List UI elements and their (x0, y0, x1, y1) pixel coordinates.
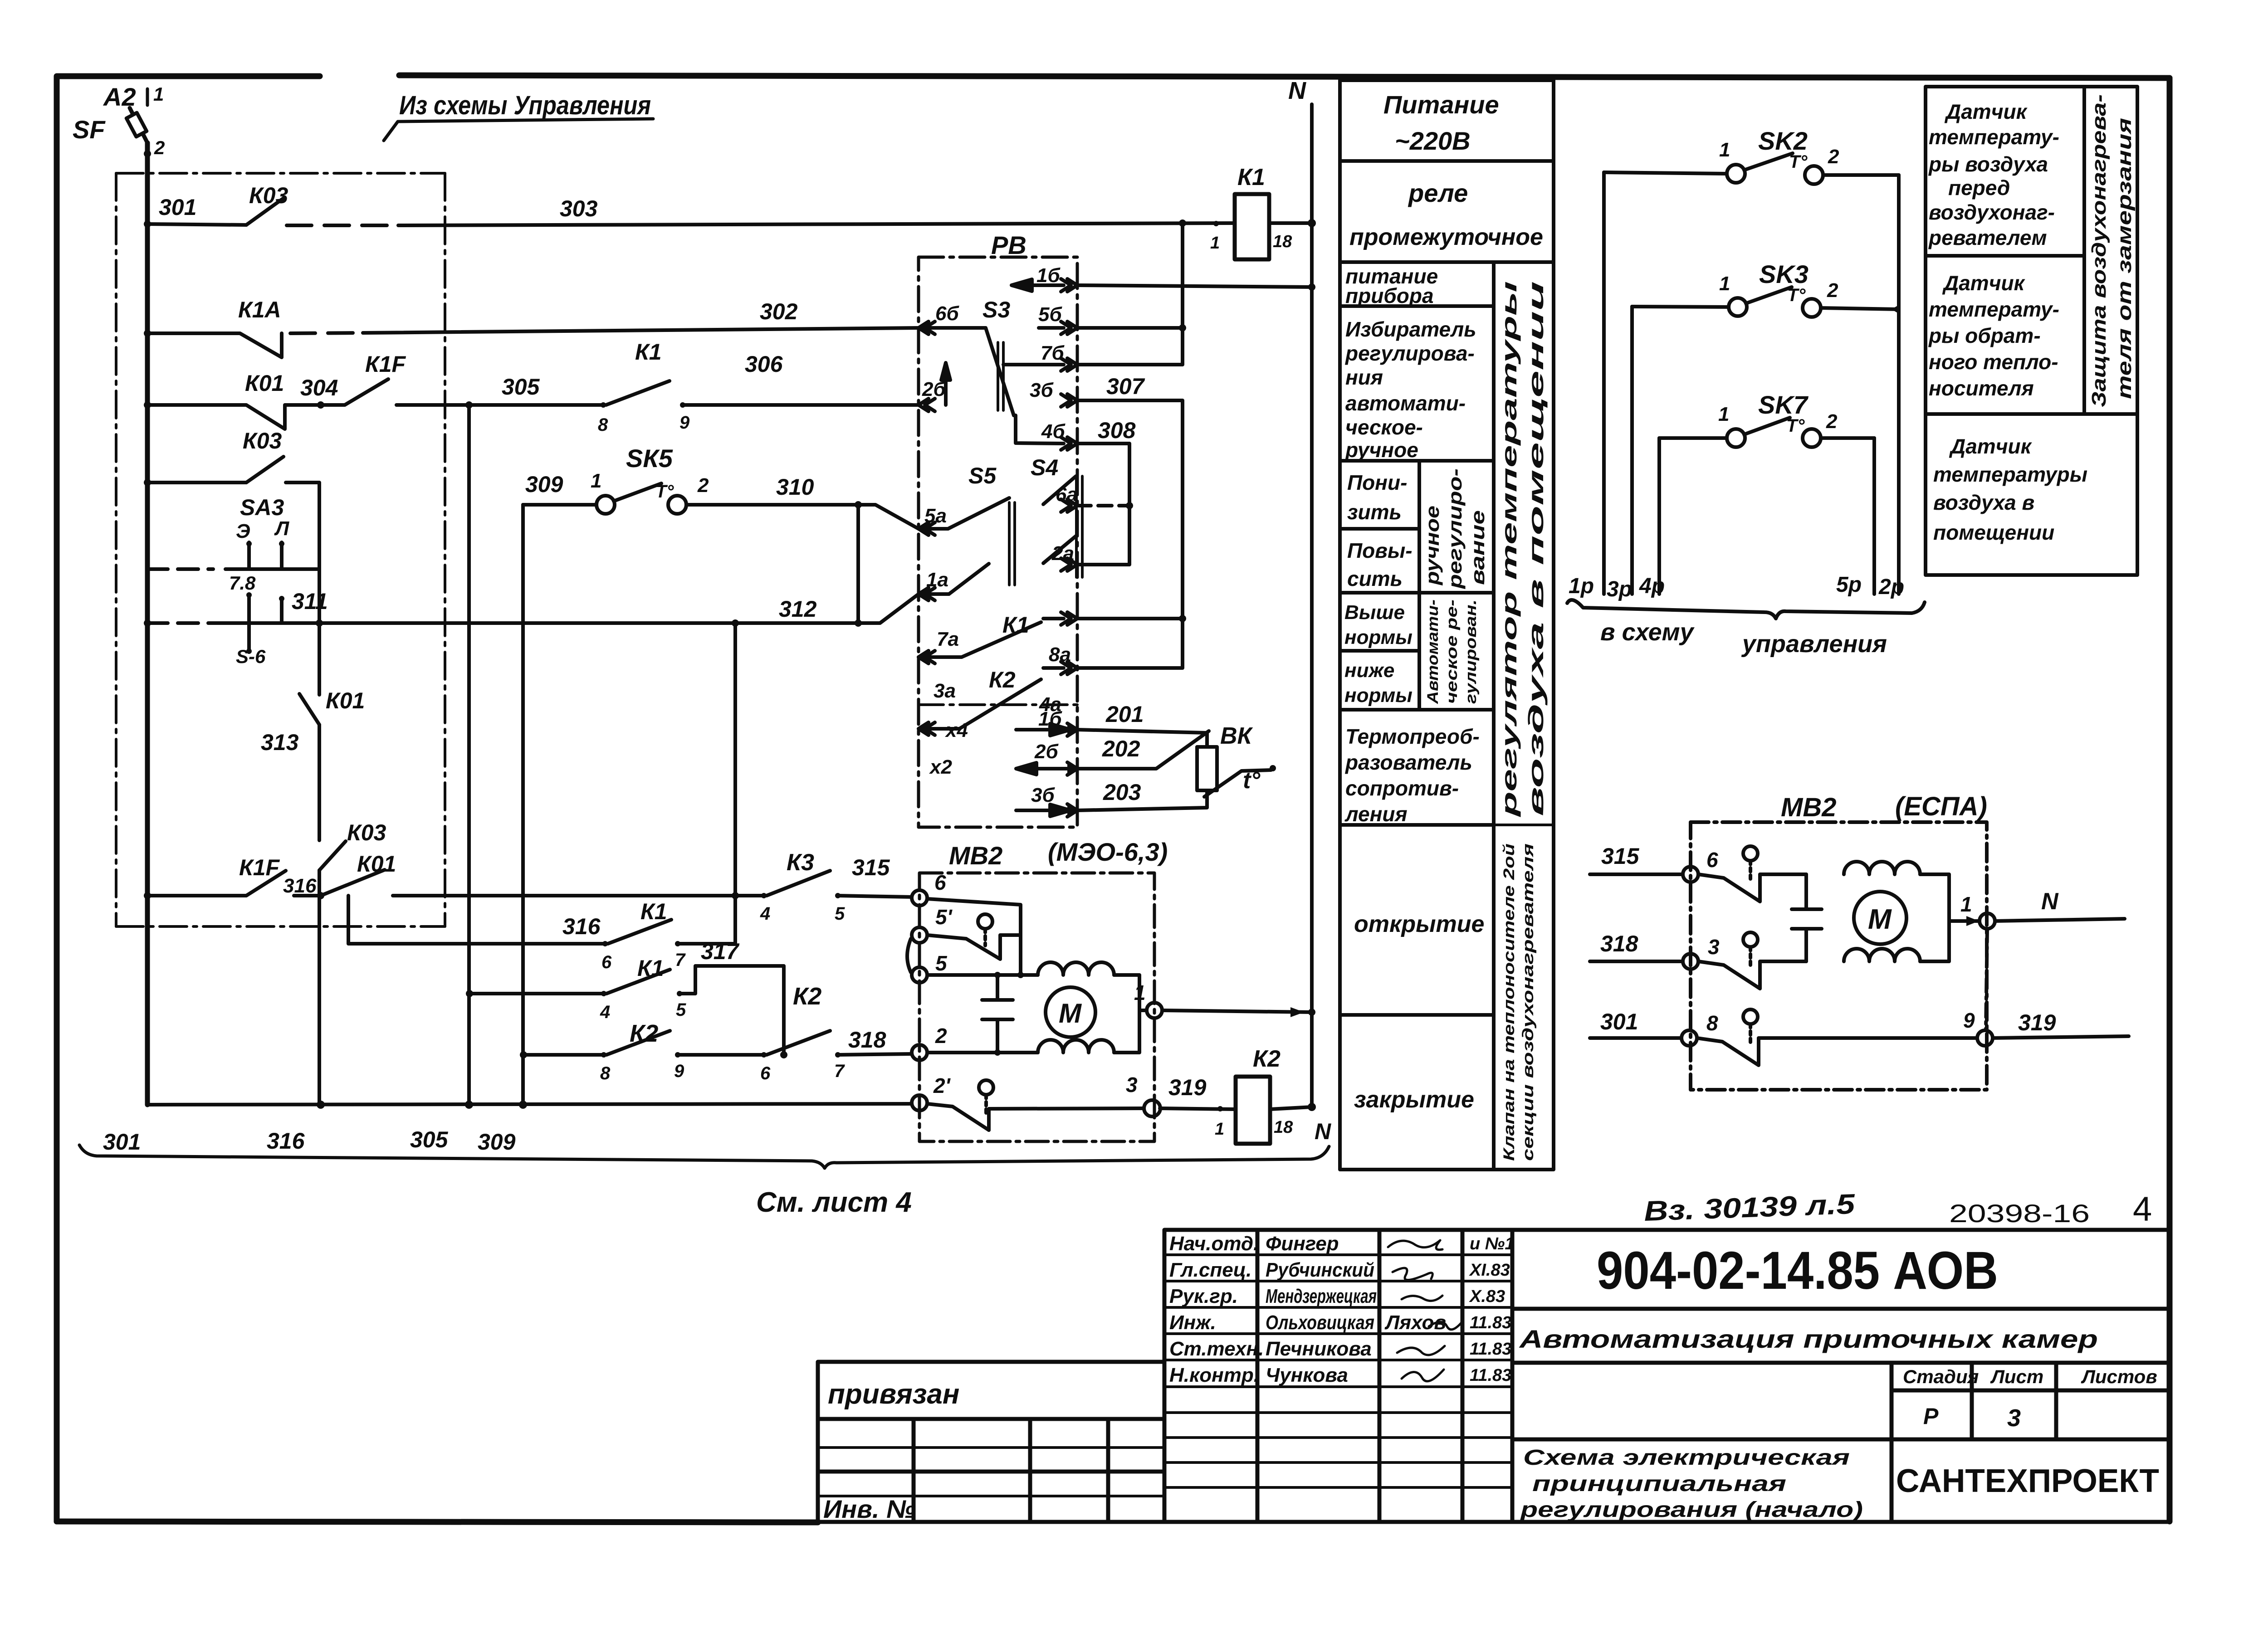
svg-text:SK7: SK7 (1758, 390, 1809, 419)
svg-text:САНТЕХПРОЕКТ: САНТЕХПРОЕКТ (1896, 1463, 2159, 1499)
svg-text:306: 306 (745, 351, 783, 377)
svg-text:воздухонаг-: воздухонаг- (1929, 200, 2055, 224)
terminal 9 (1977, 1030, 1993, 1046)
svg-text:Рук.гр.: Рук.гр. (1169, 1285, 1238, 1307)
svg-text:Датчик: Датчик (1942, 271, 2026, 295)
svg-text:перед: перед (1948, 176, 2010, 200)
right sensor description boxes (1926, 87, 2137, 575)
svg-text:S-6: S-6 (236, 646, 266, 667)
motor winding top (1038, 962, 1114, 975)
right chevron 2a (1061, 558, 1077, 571)
junction row D (144, 479, 151, 486)
svg-text:1: 1 (1719, 273, 1730, 295)
svg-text:Т°: Т° (655, 482, 674, 502)
svg-text:20398-16: 20398-16 (1949, 1199, 2090, 1228)
svg-text:4: 4 (600, 1002, 610, 1022)
svg-text:ручное: ручное (1422, 506, 1443, 585)
svg-text:5': 5' (935, 905, 953, 929)
svg-text:ры воздуха: ры воздуха (1928, 152, 2048, 176)
svg-text:К03: К03 (243, 428, 282, 453)
svg-text:автомати-: автомати- (1345, 391, 1466, 415)
svg-text:Т°: Т° (1786, 416, 1805, 436)
svg-text:А2: А2 (103, 83, 136, 111)
thermal switch SK2 (1604, 153, 1899, 184)
contact K03 row A (246, 198, 283, 225)
svg-text:301: 301 (1600, 1009, 1638, 1034)
svg-text:N: N (2041, 888, 2059, 915)
junction 310-312 (855, 619, 862, 627)
thermal switch SK3 (1632, 287, 1899, 317)
svg-text:нормы: нормы (1344, 684, 1413, 707)
svg-text:XI.83: XI.83 (1469, 1261, 1510, 1280)
svg-text:помещении: помещении (1933, 521, 2054, 544)
svg-text:воздуха в: воздуха в (1933, 491, 2034, 514)
contact K01 row H (321, 870, 735, 896)
svg-text:секции воздухонагревателя: секции воздухонагревателя (1520, 843, 1537, 1161)
svg-text:К1: К1 (637, 955, 664, 981)
svg-text:К01: К01 (245, 370, 284, 396)
wire K1 to N (1269, 221, 1312, 225)
svg-text:SА3: SА3 (240, 495, 284, 520)
right chevron 4a (1061, 662, 1077, 674)
svg-text:М: М (1868, 904, 1892, 935)
right chevron 7b (1061, 358, 1077, 371)
junction arrow at motor out (1966, 916, 1979, 926)
node 304 (317, 401, 324, 409)
МВ2 (ЕСПА) enclosure dash-dot (1691, 822, 1987, 1090)
N bus (1310, 104, 1314, 1109)
svg-text:SF: SF (73, 115, 106, 144)
wire 302 dashed (290, 333, 363, 333)
svg-text:4: 4 (2133, 1190, 2152, 1228)
svg-text:8а: 8а (1049, 643, 1071, 666)
svg-text:нормы: нормы (1344, 626, 1413, 648)
wire 1 to N (1162, 1010, 1312, 1012)
svg-text:1: 1 (591, 470, 601, 492)
svg-text:К2: К2 (989, 667, 1016, 692)
svg-text:х4: х4 (945, 719, 968, 741)
svg-text:К1: К1 (640, 899, 667, 924)
svg-text:принципиальная: принципиальная (1532, 1472, 1786, 1496)
svg-text:SК5: SК5 (626, 444, 673, 473)
svg-text:Печникова: Печникова (1266, 1338, 1372, 1360)
svg-text:сить: сить (1347, 567, 1403, 590)
wire 303 dashed section (287, 224, 398, 227)
svg-text:регулирования (начало): регулирования (начало) (1519, 1498, 1863, 1522)
motor M MEO (1046, 987, 1095, 1037)
svg-text:привязан: привязан (828, 1379, 959, 1410)
junction row H 312 (732, 892, 739, 899)
svg-text:312: 312 (779, 596, 817, 622)
PB regulator block (919, 219, 1315, 827)
thermal switch SK7 (1659, 418, 1874, 447)
svg-text:7.8: 7.8 (229, 572, 256, 594)
svg-text:К1F: К1F (365, 351, 406, 377)
svg-text:8: 8 (1706, 1011, 1718, 1035)
wire 312 drop (733, 623, 737, 944)
svg-text:309: 309 (478, 1129, 516, 1155)
svg-text:5: 5 (835, 904, 845, 924)
right chevron 3b (1061, 394, 1077, 407)
MEO dash-dot enclosure (919, 873, 1154, 1141)
svg-text:2: 2 (154, 137, 165, 158)
svg-text:6б: 6б (935, 302, 959, 325)
panel boundary dash-dot rectangle (116, 173, 445, 926)
wire 301 row A (147, 224, 246, 225)
wire 319 to K2 (1160, 1108, 1236, 1109)
svg-text:6: 6 (760, 1063, 771, 1083)
PB labels (922, 231, 1261, 806)
junction 5b-303 (1179, 219, 1186, 227)
title block (818, 1230, 2170, 1522)
wire row 317 (469, 992, 604, 995)
wire 309 row G (523, 503, 596, 507)
contact K1 8-9 row C (606, 381, 919, 405)
svg-text:Н.контр.: Н.контр. (1169, 1364, 1259, 1386)
junction 6a-308 (1126, 502, 1133, 509)
pin dot 1 K2 (1217, 1106, 1223, 1111)
motor frame (1920, 874, 1949, 961)
svg-text:сопротив-: сопротив- (1345, 776, 1459, 800)
svg-text:11.83: 11.83 (1470, 1340, 1511, 1359)
svg-text:температуры: температуры (1933, 463, 2087, 486)
contact S1 from 6 (927, 899, 1021, 975)
junction SF (144, 150, 151, 157)
terminal 3 (1683, 954, 1698, 969)
svg-text:305: 305 (502, 374, 540, 400)
svg-text:ления: ления (1344, 802, 1408, 826)
main phase bus (145, 143, 150, 1105)
svg-text:2: 2 (935, 1024, 947, 1048)
wire 310 to PB 5a (858, 505, 919, 529)
contact after terminal 6 (1698, 846, 1806, 902)
svg-text:ния: ния (1345, 366, 1383, 389)
svg-text:Гл.спец.: Гл.спец. (1169, 1259, 1251, 1281)
svg-text:308: 308 (1098, 418, 1136, 443)
svg-text:2: 2 (1826, 410, 1838, 433)
node row H 316 (317, 892, 324, 899)
motor windings bottom (1844, 949, 1920, 961)
wire K2 to N (1270, 1107, 1312, 1109)
terminal 6 (912, 890, 927, 906)
link 1 to 9 dash-dot (1986, 929, 1987, 1030)
MEO actuator block (907, 873, 1315, 1141)
svg-text:203: 203 (1103, 780, 1141, 805)
terminal 5' (912, 927, 927, 943)
svg-text:К2: К2 (793, 983, 821, 1010)
svg-text:310: 310 (776, 474, 814, 500)
relay K1 coil (1235, 194, 1269, 259)
wire 1p vertical (1602, 172, 1606, 594)
svg-text:Избиратель: Избиратель (1345, 317, 1476, 341)
svg-text:(МЭО-6,3): (МЭО-6,3) (1048, 838, 1168, 866)
contact after terminal 3 (1698, 932, 1806, 989)
svg-text:6: 6 (1706, 848, 1718, 872)
selector S5 (919, 498, 1015, 594)
svg-text:ниже: ниже (1344, 659, 1394, 682)
underline see sheet 4 (79, 1145, 1329, 1168)
svg-text:8: 8 (598, 415, 608, 435)
svg-text:311: 311 (292, 589, 328, 614)
svg-text:К2: К2 (1253, 1046, 1281, 1072)
svg-text:М: М (1059, 998, 1082, 1029)
wire 316b drop (348, 896, 603, 944)
right chevron 6a (1061, 499, 1077, 512)
capacitor MEO (982, 975, 1013, 1053)
terminal row 3b-203 (1016, 804, 1077, 817)
svg-text:S5: S5 (968, 463, 997, 488)
svg-text:2: 2 (1828, 146, 1839, 168)
contact after terminal 8 (1697, 1009, 1976, 1065)
node 301 row A junction (144, 220, 151, 228)
junction row 317 (466, 990, 473, 997)
title block personnel table (1164, 1230, 1512, 1522)
wire 311 row F dashes (147, 621, 213, 625)
svg-text:3а: 3а (934, 680, 956, 702)
svg-text:Р: Р (1923, 1404, 1939, 1429)
svg-text:Клапан на теплоносителе 2ой: Клапан на теплоносителе 2ой (1501, 843, 1518, 1161)
wire 313 vertical (318, 569, 321, 1105)
title block texts (823, 1189, 2159, 1523)
svg-text:305: 305 (410, 1127, 449, 1152)
capacitor (1792, 874, 1822, 961)
svg-text:11.83: 11.83 (1470, 1313, 1511, 1332)
x4/x2 divider (919, 703, 1077, 706)
svg-text:вание: вание (1467, 510, 1488, 585)
jumper 5'-5 (907, 939, 911, 972)
svg-text:~220В: ~220В (1395, 127, 1471, 155)
svg-text:5: 5 (935, 951, 948, 975)
svg-text:Э: Э (236, 520, 250, 542)
contact K3 row H (735, 871, 912, 897)
svg-text:прибора: прибора (1345, 284, 1434, 307)
svg-text:1: 1 (153, 83, 164, 105)
svg-text:Фингер: Фингер (1266, 1233, 1339, 1255)
svg-text:Пони-: Пони- (1347, 471, 1407, 494)
motor M (1854, 892, 1906, 944)
contact from 2' (927, 1080, 1152, 1130)
junction 317-318 (780, 1051, 787, 1058)
svg-text:t°: t° (1243, 767, 1261, 794)
junction 5b (1179, 324, 1186, 331)
contact K01 row C (147, 405, 321, 429)
svg-text:1б: 1б (1038, 708, 1062, 730)
wire 201 to BK (1077, 730, 1207, 747)
svg-text:319: 319 (1168, 1075, 1207, 1100)
svg-text:воздуха в помещении: воздуха в помещении (1524, 281, 1548, 816)
relay K2 coil (1236, 1077, 1270, 1144)
svg-text:4б: 4б (1041, 420, 1066, 443)
wire 319 (1993, 1036, 2129, 1038)
motor winding bottom (1038, 1040, 1114, 1053)
svg-text:316: 316 (562, 914, 601, 939)
breaker SF with fuse (127, 89, 147, 143)
contact K2 3a-4a (919, 668, 1064, 729)
left chevron 5a (919, 522, 935, 535)
left schematic labels (73, 83, 912, 1218)
svg-text:Датчик: Датчик (1944, 100, 2028, 123)
left chevron 1a (919, 588, 935, 600)
junction row 318 (520, 1051, 527, 1058)
svg-text:Стадия: Стадия (1903, 1366, 1979, 1387)
svg-text:РВ: РВ (991, 231, 1026, 259)
svg-text:Т°: Т° (1789, 152, 1808, 172)
svg-text:Т°: Т° (1787, 285, 1806, 305)
svg-text:9: 9 (679, 413, 690, 433)
junction arrow motor N (1290, 1007, 1304, 1017)
svg-text:5а: 5а (924, 505, 947, 527)
svg-text:регулиро-: регулиро- (1444, 468, 1466, 589)
wire row 318 (523, 1053, 604, 1057)
svg-text:313: 313 (261, 730, 299, 755)
node row F to 313 vertical (316, 619, 323, 627)
t marker (1204, 770, 1271, 797)
svg-text:ческое-: ческое- (1345, 415, 1423, 439)
svg-text:Ст.техн.: Ст.техн. (1169, 1338, 1264, 1360)
junction 1b-N (1308, 283, 1315, 291)
svg-text:2р: 2р (1878, 575, 1904, 599)
svg-text:2: 2 (1827, 279, 1838, 302)
resistor BK (1197, 747, 1217, 790)
wire 5b inner (1039, 326, 1064, 330)
terminal 5 (912, 967, 927, 983)
wire 3p vertical (1630, 307, 1634, 594)
svg-text:302: 302 (760, 299, 798, 324)
svg-text:Листов: Листов (2081, 1366, 2157, 1387)
svg-text:К03: К03 (347, 820, 386, 845)
svg-text:Термопреоб-: Термопреоб- (1345, 725, 1480, 748)
svg-text:Автомати-: Автомати- (1424, 600, 1442, 704)
terminal 2 (912, 1045, 927, 1060)
left chevron 6b (919, 322, 935, 334)
svg-text:S3: S3 (982, 297, 1010, 322)
terminal 2' (912, 1095, 927, 1111)
svg-text:18: 18 (1274, 1118, 1293, 1137)
svg-text:1: 1 (1215, 1120, 1224, 1139)
junction K2-N (1308, 1103, 1316, 1111)
svg-text:2б: 2б (1034, 741, 1059, 763)
left chevron 7a (919, 651, 935, 663)
central table texts (1344, 90, 1548, 1161)
svg-text:1: 1 (1718, 403, 1729, 425)
signatures squiggles (1388, 1240, 1463, 1381)
motor windings top (1844, 862, 1920, 874)
svg-text:Автоматизация приточных каме: Автоматизация приточных камер (1518, 1325, 2098, 1353)
junction N wire (1308, 1009, 1315, 1016)
svg-text:316: 316 (267, 1128, 305, 1154)
svg-text:N: N (1315, 1119, 1331, 1144)
svg-text:301: 301 (103, 1129, 141, 1155)
wire 8a out (1077, 617, 1183, 620)
svg-text:1б: 1б (1036, 264, 1061, 287)
svg-text:Чункова: Чункова (1266, 1364, 1348, 1386)
wire row D (K03 to SA3) (147, 483, 319, 569)
wire 2b arrow up (941, 363, 950, 405)
contact K03 row D (246, 457, 283, 483)
junction row F (144, 619, 151, 627)
internal arrow 1b (1012, 279, 1064, 291)
svg-text:2: 2 (697, 474, 709, 497)
svg-text:К03: К03 (249, 183, 288, 208)
contact K2 6-7 row 318 (767, 1031, 912, 1055)
contact K1 6-7 row 316b (608, 920, 735, 944)
svg-text:Лист: Лист (1990, 1366, 2043, 1387)
wire terminal 5 row (927, 973, 1038, 977)
svg-text:гулирован.: гулирован. (1462, 600, 1480, 704)
left chevron 3a (919, 722, 935, 735)
title block right part (1512, 1230, 2170, 1522)
svg-text:в схему: в схему (1600, 619, 1695, 646)
svg-text:6: 6 (601, 952, 612, 972)
svg-text:5б: 5б (1038, 303, 1062, 326)
terminal 8 (1681, 1030, 1697, 1046)
svg-text:3: 3 (2007, 1404, 2021, 1432)
svg-text:температу-: температу- (1929, 125, 2059, 149)
contact K2 8-9 row 318 (606, 1031, 764, 1055)
svg-text:1р: 1р (1569, 574, 1594, 598)
wire 309 dropper (521, 505, 525, 1105)
wire 301 (1590, 1036, 1681, 1040)
svg-text:307: 307 (1106, 374, 1145, 399)
junction row B (144, 330, 151, 337)
relays and N bus (1144, 104, 1316, 1144)
svg-text:304: 304 (300, 375, 338, 400)
svg-text:(ЕСПА): (ЕСПА) (1895, 792, 1987, 821)
svg-text:11.83: 11.83 (1470, 1366, 1511, 1385)
contact K01 313 (299, 694, 319, 725)
svg-text:носителя: носителя (1929, 376, 2034, 400)
brace в схему управления (1567, 600, 1925, 619)
wire 311/312 row F (213, 621, 858, 625)
wire 6a dash (1077, 504, 1129, 507)
svg-text:Схема электрическая: Схема электрическая (1523, 1446, 1850, 1470)
svg-text:К1F: К1F (239, 855, 280, 880)
wire 4p vertical (1657, 438, 1661, 594)
svg-text:3р: 3р (1607, 577, 1632, 601)
contact K1 4-5 row 317 (606, 966, 784, 1055)
svg-text:температу-: температу- (1929, 297, 2059, 321)
svg-text:8: 8 (600, 1063, 611, 1083)
svg-text:7: 7 (834, 1061, 845, 1081)
right chevron 1b (1061, 279, 1077, 292)
selector S3 (919, 328, 1064, 444)
svg-text:316: 316 (283, 875, 317, 897)
svg-text:открытие: открытие (1354, 911, 1484, 937)
contact 7-8 S-6 stubs (246, 592, 284, 654)
wire 5b out (1077, 326, 1183, 330)
svg-text:Повы-: Повы- (1347, 539, 1413, 562)
svg-text:2б: 2б (922, 378, 946, 400)
svg-text:К2: К2 (630, 1020, 658, 1047)
wire 310 drop (856, 505, 860, 623)
svg-text:Х.83: Х.83 (1469, 1287, 1505, 1306)
svg-text:9: 9 (674, 1061, 684, 1081)
title block left table (Привязан / Инв.№) (818, 1362, 1164, 1522)
svg-text:МВ2: МВ2 (949, 841, 1002, 870)
svg-text:теля от замерзания: теля от замерзания (2113, 118, 2136, 399)
svg-text:1: 1 (1134, 981, 1146, 1004)
contact K1F row C (321, 379, 603, 405)
svg-text:ВК: ВК (1220, 723, 1253, 749)
svg-text:Выше: Выше (1344, 601, 1405, 624)
svg-text:N: N (1288, 77, 1306, 104)
left schematic (79, 89, 1329, 1168)
svg-text:ревателем: ревателем (1928, 226, 2047, 249)
svg-text:3б: 3б (1030, 379, 1054, 401)
svg-text:1: 1 (1719, 139, 1730, 161)
right chevron 4b (1061, 437, 1077, 450)
svg-text:реле: реле (1408, 179, 1468, 207)
